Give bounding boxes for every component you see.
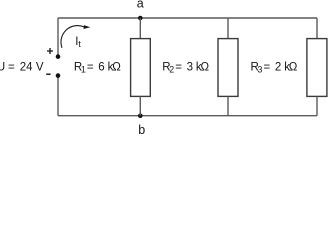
wire: R2 bottom stub (227, 96, 229, 115)
wire: R3 top stub (right corner) (316, 18, 318, 39)
current arrow It head (84, 25, 91, 29)
wire: top horizontal node-a rail (58, 17, 317, 19)
resistor R2 box (218, 39, 238, 97)
svg-text:b: b (138, 123, 145, 137)
svg-text:R2=3kΩ: R2=3kΩ (162, 61, 209, 74)
resistor R1 box (131, 39, 151, 97)
wire: bottom horizontal node-b rail (58, 115, 317, 117)
source U positive terminal dot (56, 54, 61, 59)
current arrow It arc (61, 26, 84, 48)
wire: R2 top stub (227, 18, 229, 39)
wire: R1 bottom stub (139, 96, 141, 115)
wire: R1 top stub (139, 18, 141, 39)
svg-text:R3=2kΩ: R3=2kΩ (251, 61, 298, 74)
wire: R3 bottom stub (right corner) (316, 96, 318, 115)
resistor R3 box (307, 39, 327, 97)
source U minus sign (46, 73, 50, 75)
svg-text:R1=6kΩ: R1=6kΩ (74, 61, 121, 74)
svg-text:a: a (137, 0, 144, 11)
wire: left vertical from - terminal to bottom rail (57, 77, 59, 116)
source U plus sign (47, 48, 53, 54)
source U negative terminal dot (56, 73, 61, 78)
node a dot (138, 16, 143, 21)
wire: left vertical from top rail to + terminal (57, 18, 59, 55)
node b dot (138, 113, 143, 118)
